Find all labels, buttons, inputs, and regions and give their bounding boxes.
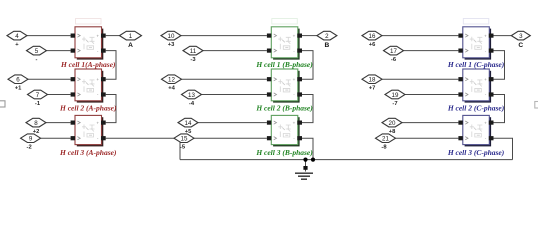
svg-text:20: 20: [389, 120, 396, 127]
svg-text:+: +: [293, 33, 296, 38]
svg-text:+: +: [293, 120, 296, 125]
svg-text:+4: +4: [168, 86, 175, 92]
svg-text:16: 16: [369, 33, 376, 40]
svg-text:-4: -4: [189, 101, 195, 107]
svg-text:H cell 1 (C-phase): H cell 1 (C-phase): [447, 60, 505, 69]
svg-text:+8: +8: [389, 129, 396, 135]
svg-text:H cell 1 (B-phase): H cell 1 (B-phase): [255, 60, 313, 69]
svg-text:18: 18: [369, 77, 376, 84]
svg-text:-7: -7: [392, 101, 397, 107]
svg-text:+6: +6: [369, 42, 376, 48]
svg-text:+: +: [96, 33, 99, 38]
svg-text:7: 7: [36, 92, 40, 99]
svg-text:C: C: [518, 42, 523, 49]
svg-text:+: +: [96, 77, 99, 82]
svg-text:+2: +2: [33, 129, 40, 135]
svg-text:A: A: [128, 42, 133, 49]
svg-text:H cell 1(A-phase): H cell 1(A-phase): [60, 60, 116, 69]
svg-text:17: 17: [390, 48, 397, 55]
svg-text:+3: +3: [168, 42, 175, 48]
svg-text:-6: -6: [391, 57, 397, 63]
svg-text:1: 1: [129, 33, 133, 40]
svg-text:-5: -5: [180, 145, 186, 151]
svg-text:H cell 2 (A-phase): H cell 2 (A-phase): [59, 104, 117, 113]
svg-text:+: +: [96, 120, 99, 125]
svg-text:+: +: [484, 77, 487, 82]
svg-text:+: +: [293, 77, 296, 82]
svg-text:14: 14: [185, 120, 192, 127]
svg-text:9: 9: [29, 136, 33, 143]
svg-text:15: 15: [181, 136, 188, 143]
svg-text:H cell 3 (C-phase): H cell 3 (C-phase): [447, 148, 505, 157]
svg-text:H cell 2 (B-phase): H cell 2 (B-phase): [255, 104, 313, 113]
svg-text:-2: -2: [27, 145, 32, 151]
svg-text:+: +: [484, 120, 487, 125]
svg-text:12: 12: [168, 77, 175, 84]
svg-text:13: 13: [188, 92, 195, 99]
svg-text:5: 5: [35, 48, 39, 55]
svg-text:H cell 3 (A-phase): H cell 3 (A-phase): [59, 148, 117, 157]
svg-text:3: 3: [519, 33, 523, 40]
svg-text:8: 8: [34, 120, 38, 127]
svg-text:-1: -1: [35, 101, 41, 107]
svg-text:H cell 3 (B-phase): H cell 3 (B-phase): [255, 148, 313, 157]
svg-text:-3: -3: [190, 57, 196, 63]
svg-text:+5: +5: [185, 129, 192, 135]
svg-text:6: 6: [16, 77, 20, 84]
svg-text:-8: -8: [381, 145, 387, 151]
svg-text:-: -: [36, 57, 38, 63]
svg-text:+7: +7: [369, 86, 376, 92]
svg-text:B: B: [325, 42, 330, 49]
svg-text:+: +: [484, 33, 487, 38]
svg-text:19: 19: [392, 92, 399, 99]
svg-text:+1: +1: [15, 86, 22, 92]
svg-text:H cell 2 (C-phase): H cell 2 (C-phase): [447, 104, 505, 113]
svg-text:21: 21: [382, 136, 389, 143]
svg-text:2: 2: [325, 33, 329, 40]
svg-text:11: 11: [190, 48, 197, 55]
svg-text:4: 4: [15, 33, 19, 40]
svg-text:10: 10: [168, 33, 175, 40]
